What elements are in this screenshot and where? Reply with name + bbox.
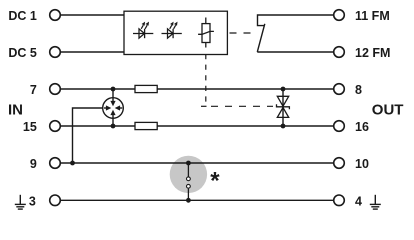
svg-text:4: 4 [355,195,362,209]
svg-text:7: 7 [30,83,37,97]
svg-text:11 FM: 11 FM [355,9,390,23]
svg-text:12 FM: 12 FM [355,46,390,60]
svg-text:IN: IN [8,102,23,119]
svg-text:DC 5: DC 5 [8,46,37,60]
svg-text:DC 1: DC 1 [8,9,37,23]
svg-text:*: * [210,167,220,194]
svg-text:9: 9 [30,157,37,171]
svg-text:15: 15 [23,120,37,134]
svg-text:16: 16 [355,120,369,134]
svg-text:10: 10 [355,157,369,171]
svg-text:OUT: OUT [372,102,404,119]
svg-text:3: 3 [29,195,36,209]
svg-text:8: 8 [355,83,362,97]
